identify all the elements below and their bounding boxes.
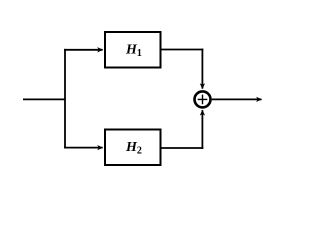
svg-text:H2: H2	[125, 140, 142, 157]
wire output arrow	[212, 98, 262, 100]
wire H2 output up into summer	[201, 110, 203, 149]
wire to H1 input	[64, 49, 103, 51]
summing junction	[195, 91, 211, 107]
wire H2 output horizontal	[162, 147, 204, 149]
wire to H2 input	[64, 147, 103, 149]
plus sign	[198, 95, 208, 105]
wire branch vertical	[64, 49, 66, 149]
block H1	[105, 32, 161, 68]
wire H1 output down into summer	[201, 49, 203, 89]
block H2	[105, 130, 161, 166]
svg-text:H1: H1	[125, 42, 142, 59]
wire H1 output horizontal	[162, 49, 204, 51]
node input stub	[23, 98, 65, 100]
